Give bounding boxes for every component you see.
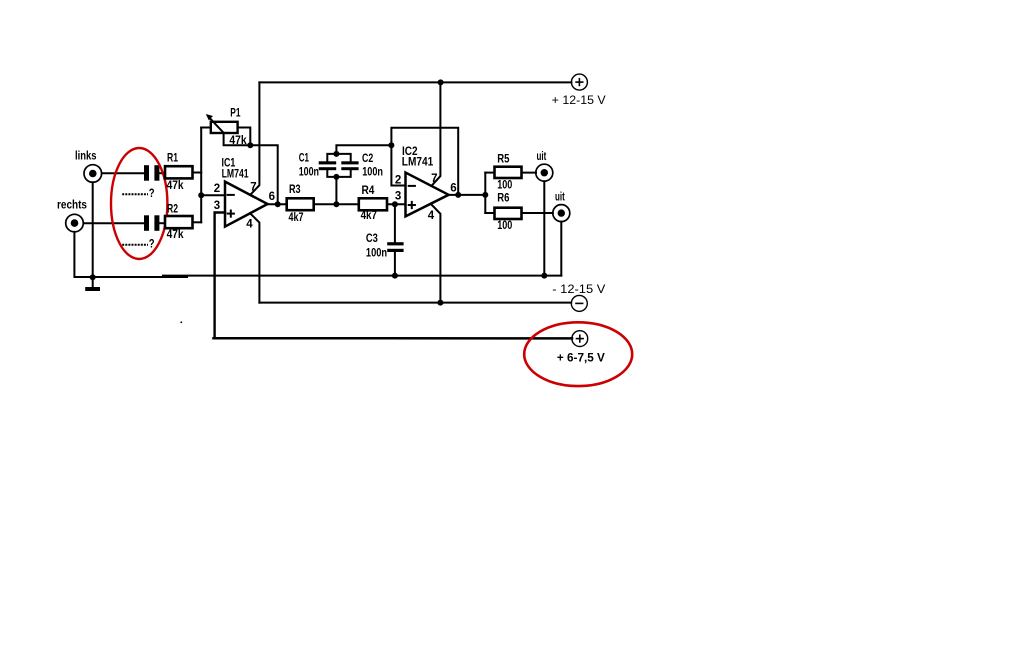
wire IC1 pin 3 to bias line xyxy=(215,213,225,339)
wire links jack ground drop xyxy=(92,182,94,277)
svg-text:R2: R2 xyxy=(167,204,178,216)
wire rechts jack to input cap xyxy=(84,222,145,224)
capacitor C3 100n xyxy=(366,204,404,275)
wire rechts jack ground drop xyxy=(74,232,187,277)
unknown value dotted line 1 xyxy=(122,188,154,200)
wire to IC1 pin 2 xyxy=(201,194,225,196)
connector J3 uit output jack 1 xyxy=(536,164,553,181)
svg-text:+ 12-15 V: + 12-15 V xyxy=(552,93,606,107)
annotation red ellipse around input capacitors xyxy=(111,148,167,259)
op-amp IC2 LM741 xyxy=(395,144,457,222)
ground symbol xyxy=(85,277,100,291)
wire R1 to inverting bus xyxy=(193,172,202,174)
resistor R1 47k xyxy=(165,152,193,192)
svg-text:6: 6 xyxy=(450,183,456,195)
svg-text:C1: C1 xyxy=(299,153,310,165)
wire IC2 output xyxy=(449,194,486,196)
wire IC2 pin 4 to -rail xyxy=(431,205,440,303)
wire C1C2 top to IC2 pin2 node xyxy=(336,145,391,154)
op-amp IC1 LM741 xyxy=(214,156,275,231)
svg-text:100: 100 xyxy=(497,220,512,232)
wire input cap to R1 xyxy=(159,172,165,174)
svg-text:3: 3 xyxy=(214,200,220,212)
svg-text:47k: 47k xyxy=(167,180,185,192)
wire to R5 xyxy=(485,172,494,174)
junction dot IC1 output xyxy=(275,201,281,207)
capacitor C-links unknown value xyxy=(144,165,159,181)
junction dot output split xyxy=(482,192,488,198)
svg-text:100n: 100n xyxy=(362,167,383,179)
svg-text:?: ? xyxy=(149,188,155,200)
wire C1 C2 bottom bracket xyxy=(327,170,350,177)
wire ground rail xyxy=(163,275,561,277)
wire uit2 ground drop xyxy=(560,222,562,276)
svg-text:100n: 100n xyxy=(299,167,319,179)
connector J1 links input jack xyxy=(84,165,102,183)
wire C1 C2 top bracket xyxy=(327,154,350,162)
svg-text:R6: R6 xyxy=(497,193,509,205)
resistor R2 47k xyxy=(165,204,193,242)
connector J4 uit output jack 2 xyxy=(553,205,570,222)
-V supply rail xyxy=(259,302,571,304)
capacitor C2 100n xyxy=(341,153,383,179)
junction dot P1 feedback xyxy=(247,142,253,148)
terminal +6-7,5V xyxy=(572,331,588,347)
wire R4 to IC2 pin 3 xyxy=(387,203,406,205)
wire P1 wiper down to junction xyxy=(224,133,251,145)
svg-text:R5: R5 xyxy=(497,153,510,165)
svg-text:47k: 47k xyxy=(167,229,185,241)
wire IC1 output to R3 xyxy=(268,203,287,205)
svg-text:2: 2 xyxy=(214,183,220,195)
svg-text:R4: R4 xyxy=(362,185,375,197)
svg-text:uit: uit xyxy=(555,192,565,204)
svg-text:4k7: 4k7 xyxy=(361,210,377,222)
svg-text:?: ? xyxy=(149,239,155,251)
svg-text:4: 4 xyxy=(246,218,253,230)
wire IC2 pin 7 to +rail xyxy=(432,82,441,185)
svg-text:R3: R3 xyxy=(289,184,301,196)
artifact dot xyxy=(181,322,183,324)
wire P1 left terminal xyxy=(201,127,211,129)
resistor R6 100 xyxy=(495,193,522,232)
terminal +12-15V xyxy=(571,74,587,90)
resistor R3 4k7 xyxy=(287,184,314,224)
svg-text:R1: R1 xyxy=(167,152,178,164)
wire to R6 xyxy=(485,212,494,214)
svg-text:uit: uit xyxy=(537,151,547,163)
svg-text:6: 6 xyxy=(269,191,275,203)
junction dot ground links xyxy=(90,274,96,280)
svg-text:100: 100 xyxy=(497,180,512,192)
wire R5 to uit1 xyxy=(522,172,537,174)
junction dot -rail IC2 pin4 xyxy=(437,300,443,306)
wire R6 to uit2 xyxy=(522,212,553,214)
svg-text:100n: 100n xyxy=(366,247,387,259)
junction dot +rail IC2 pin7 xyxy=(438,79,444,85)
+V supply rail xyxy=(259,81,571,83)
wire feedback to IC1 output xyxy=(250,145,277,204)
unknown value dotted line 2 xyxy=(122,239,154,251)
svg-text:links: links xyxy=(75,150,97,162)
junction dot C1C2 top xyxy=(333,151,339,157)
wire output split vertical xyxy=(484,173,486,213)
resistor R4 4k7 xyxy=(359,185,387,222)
wire R3 to R4 xyxy=(314,203,359,205)
resistor R5 100 xyxy=(495,153,522,191)
svg-text:+ 6-7,5 V: + 6-7,5 V xyxy=(557,352,605,364)
junction dot inverting input xyxy=(198,192,204,198)
wire IC2 feedback box xyxy=(391,128,458,195)
potentiometer P1 47k xyxy=(206,108,247,148)
wire inverting bus vertical xyxy=(200,128,202,223)
connector J2 rechts input jack xyxy=(66,214,84,232)
junction dot C1C2 bottom xyxy=(333,174,339,180)
wire R2 to inverting bus xyxy=(193,221,202,223)
capacitor C1 100n xyxy=(299,153,337,179)
svg-text:LM741: LM741 xyxy=(402,155,434,169)
terminal -12-15V xyxy=(571,295,587,311)
svg-text:4k7: 4k7 xyxy=(289,212,304,224)
svg-text:P1: P1 xyxy=(230,108,241,120)
capacitor C-rechts unknown value xyxy=(144,215,159,231)
svg-text:4: 4 xyxy=(428,210,435,222)
wire IC1 pin 4 to -rail xyxy=(250,213,259,302)
annotation red ellipse around bias terminal xyxy=(524,322,632,386)
wire input cap to R2 xyxy=(159,222,165,224)
svg-text:C3: C3 xyxy=(366,233,378,245)
junction dot IC2 pin2 C1C2 xyxy=(388,142,394,148)
junction dot R3 R4 C1C2 xyxy=(333,201,339,207)
wire C1C2 bottom to R3 R4 node xyxy=(335,177,337,204)
wire bias +6-7,5V line xyxy=(214,337,573,340)
junction dot IC2 pin3 C3 xyxy=(392,201,398,207)
junction dot IC2 output feedback xyxy=(455,192,461,198)
wire IC1 pin 7 to +rail xyxy=(250,82,259,194)
svg-text:- 12-15 V: - 12-15 V xyxy=(552,282,605,296)
wire links jack to input cap xyxy=(102,172,144,174)
wire P1 right terminal down xyxy=(238,128,251,146)
junction dot ground uit1 xyxy=(541,273,547,279)
junction dot ground C3 xyxy=(392,273,398,279)
wire uit1 ground drop xyxy=(543,181,545,275)
svg-text:LM741: LM741 xyxy=(222,167,249,181)
svg-text:rechts: rechts xyxy=(57,200,87,212)
svg-text:C2: C2 xyxy=(362,153,373,165)
svg-text:3: 3 xyxy=(395,191,401,203)
